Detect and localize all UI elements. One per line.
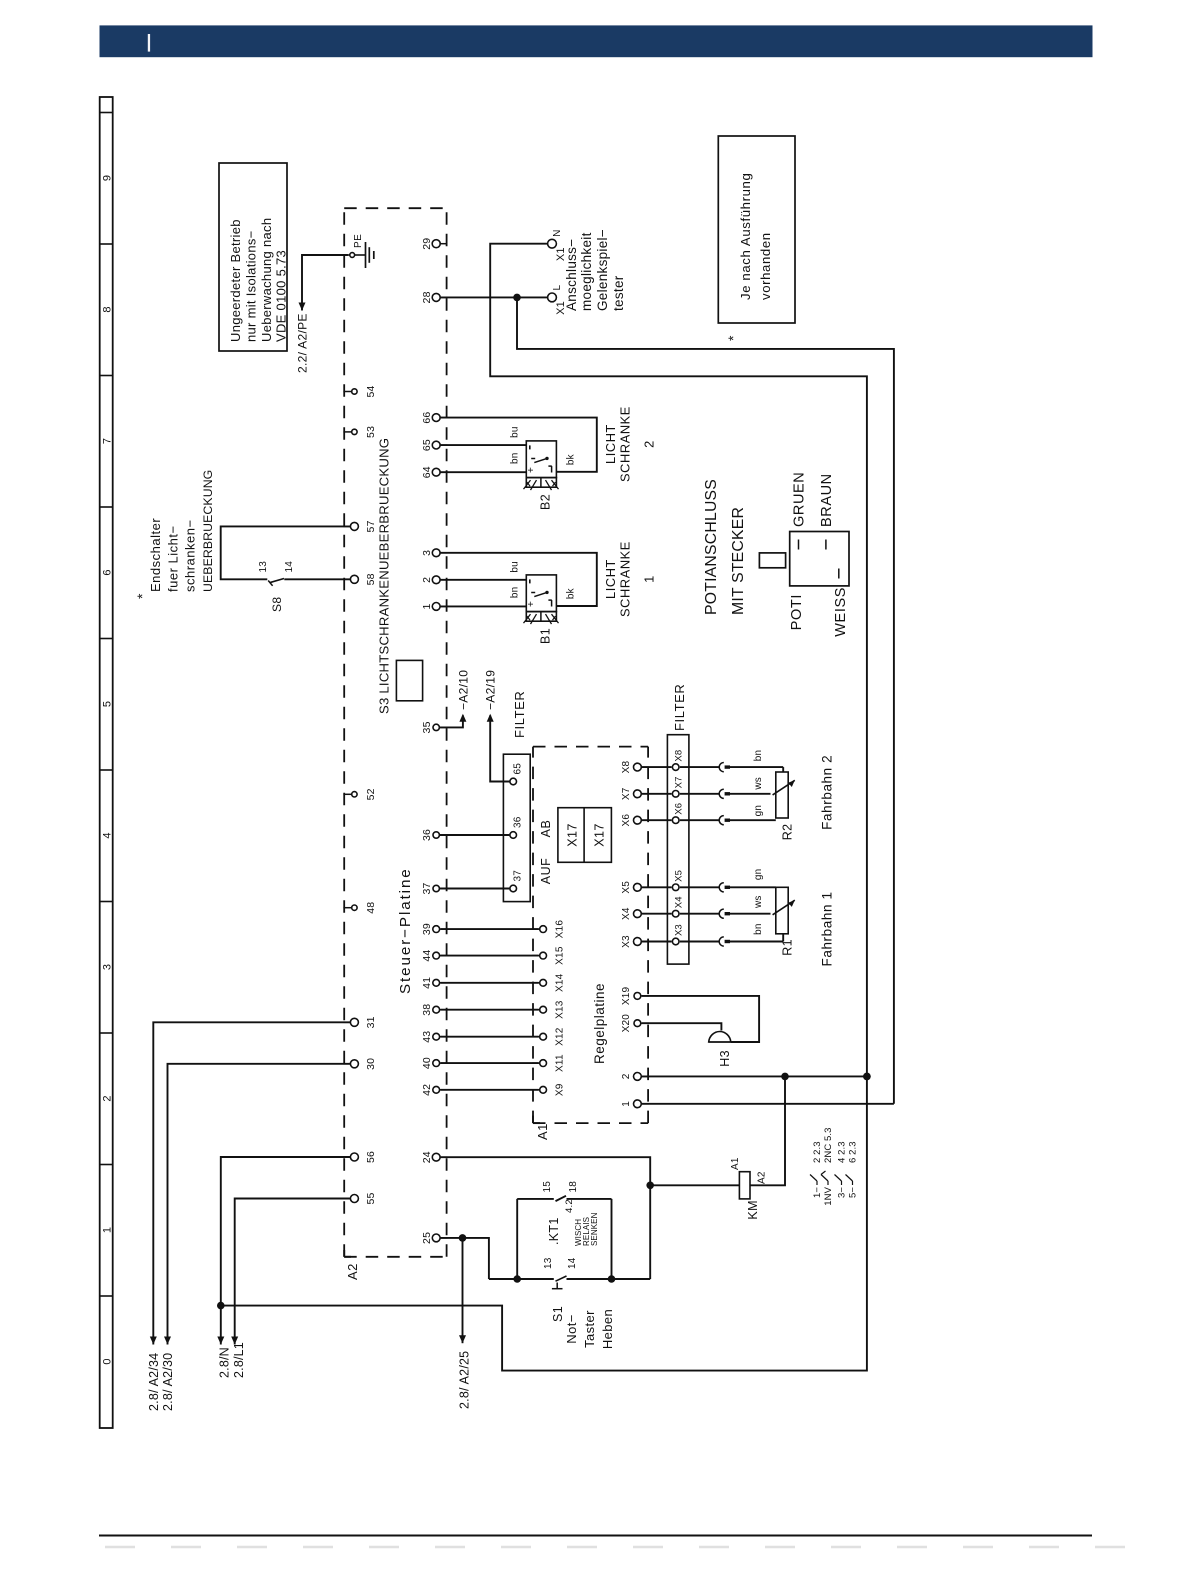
svg-text:4: 4 [102, 832, 114, 838]
svg-text:X3: X3 [674, 924, 685, 936]
svg-text:moeglichkeit: moeglichkeit [579, 232, 594, 311]
svg-text:tester: tester [611, 275, 626, 311]
svg-text:7: 7 [102, 438, 114, 444]
svg-text:31: 31 [365, 1016, 377, 1028]
svg-text:56: 56 [365, 1151, 377, 1163]
svg-text:36: 36 [421, 829, 433, 841]
svg-text:X6: X6 [674, 803, 685, 815]
svg-text:schranken−: schranken− [183, 519, 198, 592]
svg-text:X11: X11 [555, 1054, 566, 1072]
svg-text:MIT STECKER: MIT STECKER [730, 507, 747, 615]
svg-text:Gelenkspiel−: Gelenkspiel− [595, 229, 610, 311]
svg-text:X19: X19 [621, 986, 632, 1005]
svg-text:Taster: Taster [582, 1310, 597, 1348]
svg-text:LICHT: LICHT [603, 559, 618, 599]
svg-text:bn: bn [510, 452, 521, 464]
svg-text:B1: B1 [539, 628, 553, 644]
svg-text:−A2/19: −A2/19 [484, 670, 498, 710]
svg-text:42: 42 [421, 1084, 433, 1096]
svg-text:X3: X3 [621, 935, 632, 948]
svg-text:6 2.3: 6 2.3 [848, 1141, 859, 1163]
svg-text:58: 58 [365, 573, 377, 585]
svg-text:29: 29 [421, 238, 433, 250]
svg-text:2 2.3: 2 2.3 [812, 1141, 823, 1163]
svg-text:Endschalter: Endschalter [148, 518, 163, 592]
svg-text:bu: bu [510, 426, 521, 438]
svg-text:+: + [526, 601, 537, 607]
svg-text:9: 9 [102, 175, 114, 181]
svg-text:1: 1 [102, 1227, 114, 1233]
svg-text:2.8/ A2/25: 2.8/ A2/25 [457, 1351, 471, 1409]
svg-text:X5: X5 [621, 881, 632, 894]
svg-text:28: 28 [421, 291, 433, 303]
svg-text:SCHRANKE: SCHRANKE [618, 406, 633, 482]
svg-text:2.8/ A2/30: 2.8/ A2/30 [161, 1353, 175, 1411]
svg-text:14: 14 [284, 561, 295, 573]
svg-text:X8: X8 [674, 750, 685, 762]
svg-text:S1: S1 [551, 1306, 565, 1322]
svg-text:3: 3 [102, 964, 114, 970]
svg-text:Anschluss−: Anschluss− [564, 239, 579, 311]
svg-text:GRUEN: GRUEN [792, 472, 808, 527]
svg-text:2: 2 [642, 440, 657, 448]
svg-text:LICHT: LICHT [603, 424, 618, 464]
svg-text:VDE 0100 5.73: VDE 0100 5.73 [274, 250, 289, 342]
svg-text:ws: ws [753, 895, 764, 909]
svg-text:55: 55 [365, 1192, 377, 1204]
svg-text:6: 6 [102, 569, 114, 575]
svg-text:3: 3 [421, 550, 433, 556]
svg-text:X20: X20 [621, 1014, 632, 1033]
svg-text:X14: X14 [555, 973, 566, 992]
svg-text:53: 53 [365, 426, 377, 438]
svg-text:AUF: AUF [539, 858, 553, 885]
svg-text:UEBERBRUECKUNG: UEBERBRUECKUNG [201, 470, 215, 592]
svg-text:S3 LICHTSCHRANKENUEBERBRUECKU: S3 LICHTSCHRANKENUEBERBRUECKUNG [377, 438, 392, 714]
svg-text:5: 5 [102, 701, 114, 707]
svg-text:R1: R1 [781, 939, 795, 956]
svg-text:37: 37 [421, 882, 433, 894]
svg-text:POTI: POTI [789, 594, 805, 630]
svg-text:52: 52 [365, 788, 377, 800]
svg-text:13: 13 [258, 561, 269, 573]
svg-text:X5: X5 [674, 870, 685, 882]
svg-text:PE: PE [353, 234, 364, 248]
svg-text:66: 66 [421, 412, 433, 424]
svg-text:nur mit Isolations−: nur mit Isolations− [244, 230, 259, 342]
svg-text:Ueberwachung nach: Ueberwachung nach [259, 218, 274, 342]
svg-text:64: 64 [421, 466, 433, 478]
svg-text:1: 1 [421, 603, 433, 609]
svg-text:36: 36 [513, 816, 524, 828]
svg-text:40: 40 [421, 1057, 433, 1069]
svg-text:SCHRANKE: SCHRANKE [618, 541, 633, 617]
svg-text:24: 24 [421, 1151, 433, 1163]
svg-text:bu: bu [510, 561, 521, 573]
svg-text:X9: X9 [555, 1083, 566, 1096]
svg-text:L: L [552, 285, 563, 291]
svg-text:54: 54 [365, 385, 377, 397]
svg-text:65: 65 [513, 763, 524, 775]
svg-text:X12: X12 [555, 1027, 566, 1046]
svg-text:gn: gn [753, 869, 764, 881]
svg-text:WEISS: WEISS [833, 587, 849, 637]
svg-text:POTIANSCHLUSS: POTIANSCHLUSS [703, 479, 720, 615]
svg-text:38: 38 [421, 1004, 433, 1016]
svg-text:X15: X15 [555, 946, 566, 965]
svg-text:8: 8 [102, 306, 114, 312]
svg-text:2: 2 [102, 1095, 114, 1101]
svg-text:2.8/L1: 2.8/L1 [232, 1342, 246, 1378]
svg-text:FILTER: FILTER [672, 684, 687, 731]
svg-text:vorhanden: vorhanden [758, 232, 773, 300]
svg-text:A2: A2 [345, 1263, 360, 1280]
svg-text:X13: X13 [555, 1000, 566, 1019]
svg-text:41: 41 [421, 977, 433, 989]
svg-text:B2: B2 [539, 494, 553, 510]
svg-text:Fahrbahn 2: Fahrbahn 2 [820, 755, 835, 830]
svg-text:S8: S8 [270, 597, 284, 612]
svg-text:44: 44 [421, 950, 433, 962]
svg-text:*: * [134, 593, 150, 599]
svg-text:fuer Licht−: fuer Licht− [166, 525, 181, 592]
svg-text:65: 65 [421, 439, 433, 451]
svg-text:+: + [526, 467, 537, 473]
svg-text:4.2: 4.2 [564, 1199, 575, 1213]
svg-text:X4: X4 [621, 907, 632, 920]
svg-text:5−: 5− [848, 1187, 859, 1198]
svg-text:bn: bn [753, 750, 764, 762]
svg-text:2.2/ A2/PE: 2.2/ A2/PE [296, 313, 310, 373]
svg-text:bn: bn [510, 587, 521, 599]
svg-text:1: 1 [642, 575, 657, 583]
svg-text:X7: X7 [674, 776, 685, 788]
svg-text:1NV: 1NV [823, 1186, 834, 1205]
svg-text:Regelplatine: Regelplatine [592, 983, 607, 1064]
svg-text:13: 13 [543, 1257, 554, 1269]
svg-text:Steuer−Platine: Steuer−Platine [397, 867, 414, 994]
svg-text:AB: AB [539, 820, 553, 838]
svg-text:bk: bk [566, 587, 577, 599]
svg-text:BRAUN: BRAUN [819, 473, 835, 527]
svg-text:ws: ws [753, 777, 764, 791]
svg-text:X17: X17 [593, 823, 607, 846]
svg-text:0: 0 [102, 1358, 114, 1364]
svg-text:14: 14 [567, 1257, 578, 1269]
svg-text:48: 48 [365, 902, 377, 914]
svg-text:15: 15 [542, 1181, 553, 1193]
svg-text:R2: R2 [781, 824, 795, 841]
svg-text:gn: gn [753, 805, 764, 817]
svg-text:FILTER: FILTER [512, 691, 527, 738]
svg-text:25: 25 [421, 1232, 433, 1244]
svg-text:H3: H3 [718, 1050, 732, 1067]
svg-text:*: * [725, 335, 741, 341]
svg-text:A1: A1 [535, 1123, 550, 1140]
svg-text:X8: X8 [621, 761, 632, 774]
svg-text:3−: 3− [837, 1187, 848, 1198]
svg-text:2: 2 [421, 577, 433, 583]
svg-text:bn: bn [753, 923, 764, 935]
svg-text:Heben: Heben [600, 1309, 615, 1349]
svg-text:35: 35 [421, 721, 433, 733]
svg-text:Ungeerdeter Betrieb: Ungeerdeter Betrieb [228, 219, 243, 342]
svg-text:Fahrbahn 1: Fahrbahn 1 [820, 891, 835, 966]
svg-text:2: 2 [621, 1073, 632, 1079]
svg-text:30: 30 [365, 1058, 377, 1070]
svg-text:N: N [552, 229, 563, 236]
svg-text:4 2.3: 4 2.3 [837, 1141, 848, 1163]
svg-text:X6: X6 [621, 814, 632, 827]
svg-text:A2: A2 [757, 1171, 768, 1184]
svg-text:SENKEN: SENKEN [590, 1212, 599, 1246]
svg-text:2NC 5.3: 2NC 5.3 [823, 1127, 834, 1163]
svg-text:X16: X16 [555, 920, 566, 939]
svg-text:Not−: Not− [564, 1314, 579, 1343]
svg-text:2.8/ A2/34: 2.8/ A2/34 [147, 1353, 161, 1411]
svg-text:1−: 1− [812, 1187, 823, 1198]
svg-text:X17: X17 [566, 823, 580, 846]
svg-text:KM: KM [746, 1200, 760, 1220]
svg-text:2.8/N: 2.8/N [218, 1347, 232, 1378]
svg-text:X4: X4 [674, 896, 685, 908]
svg-text:43: 43 [421, 1031, 433, 1043]
svg-text:39: 39 [421, 923, 433, 935]
svg-text:X7: X7 [621, 787, 632, 800]
svg-text:37: 37 [513, 870, 524, 882]
svg-text:bk: bk [566, 453, 577, 465]
svg-text:−A2/10: −A2/10 [456, 670, 470, 710]
svg-text:Je nach Ausführung: Je nach Ausführung [738, 173, 753, 300]
svg-text:.KT1: .KT1 [547, 1217, 561, 1245]
svg-text:1: 1 [621, 1101, 632, 1107]
svg-text:18: 18 [568, 1181, 579, 1193]
svg-text:57: 57 [365, 520, 377, 532]
svg-text:A1: A1 [730, 1157, 741, 1170]
